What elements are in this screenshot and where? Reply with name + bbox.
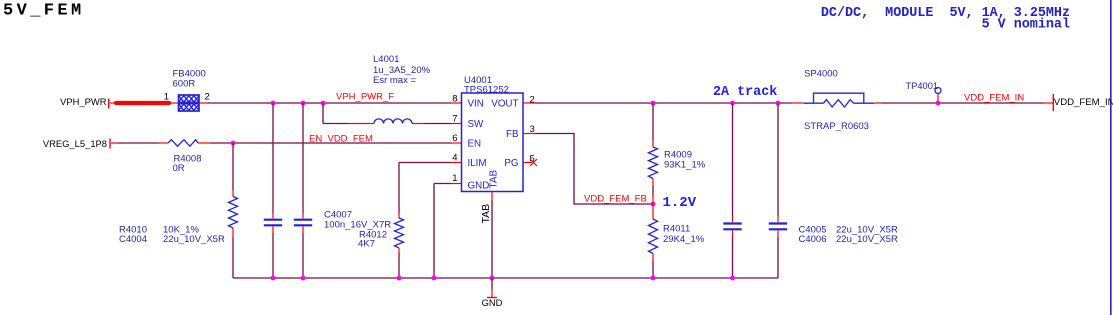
svg-text:SW: SW xyxy=(468,119,485,130)
svg-text:VOUT: VOUT xyxy=(491,99,518,110)
svg-text:2: 2 xyxy=(205,92,210,103)
svg-text:FB: FB xyxy=(506,129,519,140)
svg-text:7: 7 xyxy=(452,114,457,125)
svg-text:VDD_FEM_FB: VDD_FEM_FB xyxy=(584,194,647,205)
svg-text:VDD_FEM_IN: VDD_FEM_IN xyxy=(964,93,1024,104)
svg-text:VREG_L5_1P8: VREG_L5_1P8 xyxy=(43,138,107,149)
wire R4008 right stub xyxy=(198,142,210,144)
no-connect X on PG xyxy=(530,159,537,166)
resistor SP4000 strap xyxy=(804,93,874,107)
wire GND pin1 stub xyxy=(451,183,462,185)
wire FB4000 pin2 stub xyxy=(199,102,207,104)
svg-text:VPH_PWR: VPH_PWR xyxy=(60,96,107,107)
svg-text:VIN: VIN xyxy=(468,99,484,110)
node junction (434,278) xyxy=(432,276,437,281)
svg-text:1: 1 xyxy=(452,173,457,184)
svg-text:2: 2 xyxy=(530,95,535,106)
resistor R4011 branch xyxy=(649,204,658,278)
svg-text:Esr max =: Esr max = xyxy=(373,75,416,86)
inductor L4001 xyxy=(374,119,412,124)
svg-text:VDD_FEM_IN: VDD_FEM_IN xyxy=(1054,97,1113,108)
node junction (653,278) xyxy=(651,276,656,281)
wire VIN pin8 stub xyxy=(451,102,462,104)
capacitor C4006 branch xyxy=(769,103,787,278)
svg-text:VPH_PWR_F: VPH_PWR_F xyxy=(336,92,394,103)
wire ground rail xyxy=(233,277,778,279)
port VPH_PWR xyxy=(60,96,109,109)
svg-text:6: 6 xyxy=(452,133,457,144)
svg-text:1.2V: 1.2V xyxy=(663,195,697,211)
node junction (233,143) xyxy=(231,141,236,146)
node junction (323,103) xyxy=(321,101,326,106)
svg-text:PG: PG xyxy=(504,158,518,169)
wire SW pin7 stub xyxy=(451,123,462,125)
svg-text:C4004: C4004 xyxy=(119,234,147,245)
svg-text:5V_FEM: 5V_FEM xyxy=(3,2,85,21)
capacitor C4007 branch xyxy=(294,103,312,278)
svg-text:TP4001: TP4001 xyxy=(906,81,939,91)
wire inductor left stub xyxy=(348,123,374,125)
resistor R4012 branch xyxy=(395,163,404,279)
svg-text:TAB: TAB xyxy=(480,204,492,224)
capacitor C4005 branch xyxy=(723,103,741,278)
svg-text:8: 8 xyxy=(452,94,457,105)
wire VOUT rail xyxy=(535,102,792,104)
node junction (273,103) xyxy=(271,101,276,106)
svg-text:C4006: C4006 xyxy=(799,234,827,245)
wire GND pin1 row xyxy=(434,184,451,279)
test point TP4001 xyxy=(935,88,941,104)
resistor R4010 branch xyxy=(229,143,238,278)
wire SP4000 right stub xyxy=(874,102,882,104)
svg-text:29K4_1%: 29K4_1% xyxy=(663,234,705,245)
wire VREG stub xyxy=(111,142,118,144)
wire TAB pin stub below box xyxy=(491,192,493,201)
wire inductor right stub xyxy=(412,123,424,125)
wire VOUT pin2 stub xyxy=(523,102,535,104)
svg-text:0R: 0R xyxy=(173,163,185,174)
wire FB net xyxy=(535,134,653,205)
svg-text:L4001: L4001 xyxy=(373,54,399,65)
node junction (732.5,103) xyxy=(730,101,735,106)
node junction (303,278) xyxy=(301,276,306,281)
capacitor C4004 branch xyxy=(264,103,282,278)
ground symbol xyxy=(482,278,503,308)
wire VREG to R4008 xyxy=(118,142,159,144)
node junction (778,103) xyxy=(776,101,781,106)
node junction (732.5,278) xyxy=(730,276,735,281)
node junction (938,103) xyxy=(936,101,941,106)
port VDD_FEM_IN xyxy=(1053,94,1113,111)
frame right border xyxy=(1110,0,1112,315)
wire rail to SP4000 xyxy=(792,102,804,104)
node junction (273,278) xyxy=(271,276,276,281)
svg-text:SP4000: SP4000 xyxy=(804,69,838,80)
svg-text:GND: GND xyxy=(468,181,490,192)
port VREG_L5_1P8 xyxy=(43,138,110,149)
node junction (492,278) xyxy=(490,276,495,281)
wire ILIM pin4 stub xyxy=(451,162,462,164)
svg-text:1: 1 xyxy=(164,92,169,103)
svg-text:4: 4 xyxy=(452,153,457,164)
wire thick VPH_PWR to FB4000 xyxy=(110,102,178,104)
wire TAB to ground rail xyxy=(491,200,493,278)
svg-text:22u_10V_X5R: 22u_10V_X5R xyxy=(163,234,225,245)
resistor R4009 branch xyxy=(649,103,658,204)
node junction (399,278) xyxy=(397,276,402,281)
svg-text:TAB: TAB xyxy=(489,169,500,188)
wire VIN rail xyxy=(207,102,451,104)
svg-text:22u_10V_X5R: 22u_10V_X5R xyxy=(836,234,898,245)
wire SW row right xyxy=(424,123,451,125)
svg-text:TPS61252: TPS61252 xyxy=(464,85,509,96)
op-amp U1: IC U4001 TPS61252 body xyxy=(462,93,524,192)
svg-text:600R: 600R xyxy=(173,79,196,90)
node junction (653,103) xyxy=(651,101,656,106)
wire EN pin6 stub xyxy=(451,142,462,144)
resistor R4008 xyxy=(168,140,198,147)
node junction (303,103) xyxy=(301,101,306,106)
wire ILIM row xyxy=(399,162,451,164)
wire SW branch drop xyxy=(322,103,324,124)
wire SW row left xyxy=(323,123,348,125)
wire FB pin3 stub xyxy=(523,133,535,135)
svg-text:STRAP_R0603: STRAP_R0603 xyxy=(804,121,869,132)
svg-text:EN: EN xyxy=(468,139,482,150)
node junction (653,204) xyxy=(651,202,656,207)
wire R4008 left stub xyxy=(159,142,168,144)
wire right port stub xyxy=(1043,102,1053,104)
svg-text:4K7: 4K7 xyxy=(358,239,375,250)
ferrite bead FB4000 xyxy=(179,95,200,111)
svg-text:R4011: R4011 xyxy=(663,224,690,235)
svg-text:5 V nominal: 5 V nominal xyxy=(982,18,1070,33)
wire PG pin5 stub xyxy=(523,162,532,164)
wire EN row xyxy=(210,142,451,144)
svg-text:ILIM: ILIM xyxy=(468,158,487,169)
svg-text:GND: GND xyxy=(482,297,503,308)
svg-text:93K1_1%: 93K1_1% xyxy=(664,160,706,171)
svg-text:EN_VDD_FEM: EN_VDD_FEM xyxy=(309,134,373,145)
svg-text:2A track: 2A track xyxy=(713,85,777,100)
wire to VDD_FEM_IN xyxy=(882,102,1043,104)
